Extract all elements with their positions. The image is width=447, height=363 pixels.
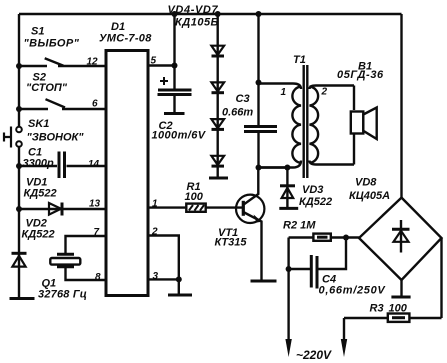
svg-text:05ГД-36: 05ГД-36 (337, 69, 384, 81)
svg-text:100: 100 (185, 191, 204, 203)
node: diode chain on top rail (215, 11, 221, 17)
svg-text:100: 100 (389, 303, 408, 315)
svg-text:КЦ405А: КЦ405А (349, 190, 390, 202)
svg-text:0,66m/250V: 0,66m/250V (319, 285, 387, 297)
wire: primary bottom to transistor collector node (259, 166, 288, 168)
svg-text:3300p: 3300p (23, 158, 54, 170)
transformer T1 primary winding (259, 84, 302, 168)
svg-text:КД522: КД522 (22, 229, 55, 241)
node: rail/C2 branch (172, 11, 178, 17)
wire: right mains lead (343, 318, 345, 340)
node: S1 junction on left bus (16, 63, 22, 69)
svg-text:"ЗВОНОК": "ЗВОНОК" (27, 132, 85, 144)
diode VD2 (12, 253, 27, 266)
wire: pin 7 to crystal (66, 236, 107, 253)
svg-text:32768 Гц: 32768 Гц (38, 289, 87, 301)
C2 plus sign (160, 77, 168, 85)
capacitor C3 (244, 83, 277, 168)
svg-text:14: 14 (88, 159, 100, 170)
wire: crystal to pin 8 (66, 268, 107, 280)
wire: top rail down to pin5 node (173, 14, 175, 90)
node: pin5/C2 junction (172, 63, 178, 69)
crystal Q1 (50, 254, 80, 266)
svg-text:R2 1M: R2 1M (283, 220, 316, 232)
svg-text:VD3: VD3 (302, 184, 323, 196)
svg-text:S1: S1 (31, 26, 44, 38)
resistor R2 (289, 234, 359, 241)
svg-text:R3: R3 (370, 303, 384, 315)
diode VD7 (211, 156, 224, 166)
wire: speaker bottom to secondary (353, 134, 355, 165)
wire: pin 3 (148, 278, 179, 280)
diode VD5 (211, 82, 224, 92)
terminal bar below bridge (391, 296, 410, 299)
arrow: left mains lead (285, 339, 291, 357)
diode VD6 (211, 119, 224, 129)
svg-text:6: 6 (92, 99, 98, 110)
wire: right frame (bridge to R3) (440, 238, 442, 318)
svg-text:КТ315: КТ315 (215, 237, 248, 249)
svg-text:КД105Б: КД105Б (175, 17, 219, 29)
IC D1 УМС-7-08 (106, 51, 148, 296)
svg-text:1000m/6V: 1000m/6V (152, 130, 207, 142)
transformer T1 secondary winding (310, 86, 355, 165)
transistor VT1 (236, 168, 264, 281)
wire: left bus mid section (SK1 to VD2) (18, 147, 20, 298)
pushbutton SK1 (4, 127, 22, 148)
node: R2/bridge junction (343, 235, 349, 241)
svg-text:C3: C3 (236, 93, 250, 105)
svg-text:КД522: КД522 (24, 188, 57, 200)
switch S2 (19, 99, 106, 109)
wire: pin 5 to C2 node (148, 64, 175, 66)
wire: bridge bottom to terminal bar (400, 280, 402, 296)
capacitor C2 (electrolytic) (158, 90, 192, 114)
svg-text:D1: D1 (111, 21, 125, 33)
svg-text:"ВЫБОР": "ВЫБОР" (24, 38, 80, 50)
speaker B1 (351, 108, 377, 140)
svg-text:8: 8 (95, 272, 101, 283)
svg-text:VD8: VD8 (355, 177, 377, 189)
wire: secondary top to speaker (353, 86, 355, 111)
bridge rectifier VD8 (359, 198, 442, 280)
node: C4 left junction (286, 266, 292, 272)
ground at pin 3 (168, 279, 192, 295)
wire: top supply rail (19, 13, 402, 15)
node: VD1 junction on left bus (16, 206, 22, 212)
diode VD1 (19, 203, 106, 216)
svg-text:VD4-VD7: VD4-VD7 (168, 4, 219, 16)
svg-text:12: 12 (87, 57, 99, 68)
svg-text:T1: T1 (293, 54, 306, 66)
resistor R3 (344, 314, 442, 322)
arrow: right mains lead (341, 339, 347, 357)
svg-text:УМС-7-08: УМС-7-08 (99, 32, 152, 44)
node: C1 junction on left bus (16, 163, 22, 169)
diode VD3 (279, 168, 298, 209)
svg-text:КД522: КД522 (299, 196, 332, 208)
node: S2 junction on left bus (16, 106, 22, 112)
node: T1 branch on top rail (256, 11, 262, 17)
terminal bar at left bus bottom (10, 297, 35, 300)
node: C3/T1 top junction (256, 80, 262, 86)
svg-text:2: 2 (321, 87, 328, 98)
node: VD3 junction (284, 165, 290, 171)
wire: pin 2 (148, 236, 179, 280)
terminal bar below diode chain (209, 177, 228, 180)
resistor R1 (148, 204, 243, 212)
wire: rail corner down to bridge top (400, 14, 402, 198)
wire: top rail down to T1 branch (257, 14, 259, 83)
diode VD4 (211, 46, 224, 56)
diode chain VD4-VD7 wire (216, 14, 218, 178)
svg-text:"СТОП": "СТОП" (26, 82, 68, 94)
svg-text:SK1: SK1 (28, 118, 49, 130)
transformer T1 core (304, 65, 308, 178)
terminal bar at emitter (251, 280, 277, 283)
node: collector junction (256, 165, 262, 171)
svg-text:~220V: ~220V (296, 348, 332, 362)
switch S1 (19, 58, 106, 66)
node: pin3 junction (176, 276, 182, 282)
capacitor C4 (289, 240, 346, 289)
capacitor C1 (19, 152, 106, 179)
svg-text:13: 13 (89, 199, 101, 210)
svg-text:0.66m: 0.66m (222, 107, 253, 119)
wire: left bus upper section (18, 14, 20, 126)
svg-text:1: 1 (281, 87, 287, 98)
wire: left mains lead (287, 238, 289, 341)
